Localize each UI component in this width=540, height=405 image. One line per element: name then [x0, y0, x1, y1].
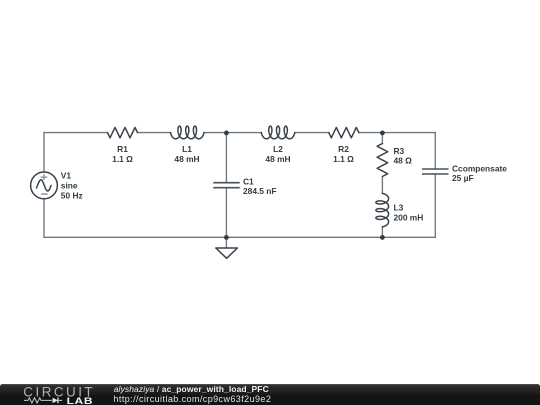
svg-text:48 mH: 48 mH	[265, 154, 290, 164]
svg-text:R1: R1	[117, 144, 128, 154]
svg-text:LAB: LAB	[67, 396, 94, 405]
svg-text:alyshaziya / ac_power_with_loa: alyshaziya / ac_power_with_load_PFC	[114, 384, 269, 394]
svg-text:Ccompensate: Ccompensate	[452, 163, 507, 173]
svg-text:1.1 Ω: 1.1 Ω	[333, 154, 354, 164]
svg-text:284.5 nF: 284.5 nF	[243, 186, 277, 196]
svg-text:48 mH: 48 mH	[174, 154, 199, 164]
svg-text:C1: C1	[243, 176, 254, 186]
svg-text:R3: R3	[394, 146, 405, 156]
svg-text:http://circuitlab.com/cp9cw63f: http://circuitlab.com/cp9cw63f2u9e2	[114, 394, 272, 404]
svg-text:50 Hz: 50 Hz	[61, 190, 83, 200]
svg-text:sine: sine	[61, 180, 78, 190]
svg-text:L2: L2	[273, 144, 283, 154]
svg-text:200 mH: 200 mH	[394, 213, 424, 223]
svg-text:25 µF: 25 µF	[452, 173, 474, 183]
svg-text:R2: R2	[338, 144, 349, 154]
svg-text:48 Ω: 48 Ω	[394, 156, 413, 166]
svg-text:L3: L3	[394, 202, 404, 212]
svg-text:V1: V1	[61, 170, 72, 180]
svg-text:1.1 Ω: 1.1 Ω	[112, 154, 133, 164]
svg-text:L1: L1	[182, 144, 192, 154]
